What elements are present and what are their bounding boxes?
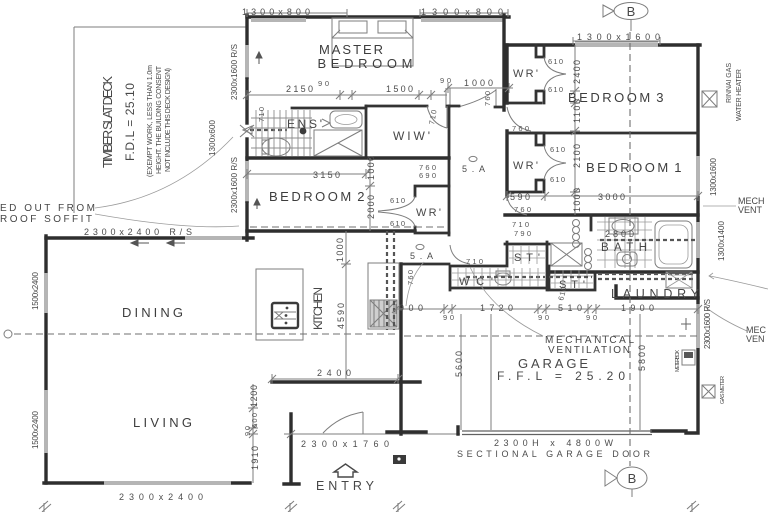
water heater symbol (702, 91, 717, 107)
svg-text:600: 600 (250, 413, 259, 428)
dim line: garage top row 900/1720/510/1900 (392, 304, 702, 314)
hall dashes near ST2 (549, 276, 592, 278)
wardrobe WR bedroom2: top/bottom/jambs (415, 186, 449, 233)
svg-text:1910: 1910 (250, 446, 260, 470)
dim line: 1300x1600 top (573, 37, 660, 45)
datum circle left end (4, 330, 12, 338)
wall: entry east pier feet (387, 264, 426, 434)
window 2300x1600 in east wall (garage) (696, 304, 700, 348)
svg-text:1000: 1000 (335, 238, 345, 262)
B marker top (603, 3, 648, 20)
wall: NE top exterior (505, 43, 700, 46)
laundry washer (666, 272, 692, 288)
door: ENS cavity slider dashed (250, 129, 287, 131)
ENS toilet (262, 138, 290, 156)
entry meter plate (393, 455, 406, 464)
svg-text:610: 610 (548, 57, 563, 66)
kitchen bench (368, 263, 399, 329)
wall: ST upper room (505, 242, 549, 266)
shower box with cross (551, 243, 582, 266)
svg-text:GAS METER: GAS METER (720, 376, 726, 404)
window 2300x1600 lower in west wall (245, 161, 249, 203)
up arrow west wall master (256, 52, 262, 64)
svg-text:MASTER: MASTER (319, 42, 383, 57)
wall: west wall bottom (241, 203, 253, 240)
wall: hall wall right of bedroom2 (448, 158, 451, 235)
wall: east exterior (686, 45, 698, 433)
svg-text:900: 900 (399, 303, 423, 313)
svg-text:1500x2400: 1500x2400 (31, 271, 40, 310)
spring coil symbol hall 2 (585, 249, 592, 270)
benchmark symbols bottom (39, 501, 699, 512)
door: WC entry arc (450, 245, 470, 264)
svg-text:KITCHEN: KITCHEN (311, 287, 325, 330)
dim line: vertical x646 garage 5600 (639, 314, 641, 430)
spring coil symbol hall 1 (573, 220, 580, 248)
entry threshold line (291, 433, 460, 435)
svg-text:1300x600: 1300x600 (208, 119, 217, 156)
svg-text:TIMBER SLAT DECK: TIMBER SLAT DECK (101, 75, 115, 168)
svg-text:2000: 2000 (366, 195, 376, 219)
svg-text:B: B (628, 471, 637, 486)
wall: WC room (450, 242, 549, 290)
WR top closet: bottom + jambs (507, 45, 544, 103)
smoke alarm symbol hall lower (410, 244, 433, 261)
WC toilet (495, 271, 511, 285)
ENS floor waste (300, 128, 307, 135)
garage sectional door line (462, 431, 652, 435)
svg-text:710: 710 (257, 107, 266, 122)
wall: laundry bottom (616, 286, 698, 298)
svg-text:1000: 1000 (572, 188, 582, 212)
svg-text:590: 590 (510, 192, 530, 202)
svg-text:2300x1600 R/S: 2300x1600 R/S (230, 44, 239, 100)
window 2300x1600 upper in west wall (245, 45, 249, 79)
WC hall dashes (466, 276, 545, 278)
section line B vertical dashed (629, 32, 631, 466)
left arrows under dining window (131, 240, 149, 246)
ENS shower (314, 130, 362, 156)
wall: hall/WR east wall x507 (505, 45, 508, 196)
wall: bath bottom / laundry top (549, 270, 698, 273)
svg-text:METER BOX: METER BOX (675, 350, 681, 372)
bed master (332, 18, 413, 66)
wall: west wall below deck door (245, 139, 248, 161)
dim line: 3150 ens row (243, 169, 370, 179)
svg-text:5.A: 5.A (462, 164, 485, 174)
svg-text:VEN: VEN (746, 334, 765, 344)
gas meter symbol (702, 385, 715, 398)
leader curve to wall soffit (95, 214, 239, 227)
svg-text:760: 760 (512, 124, 529, 133)
svg-text:510: 510 (558, 303, 582, 313)
dim line: vertical x575 bedroom rows (570, 45, 580, 215)
door: WIW arc (427, 106, 447, 128)
bath tub (655, 221, 692, 268)
kitchen island (256, 269, 303, 340)
svg-text:1300x1600: 1300x1600 (709, 157, 718, 196)
roof dashed pair near kitchen (387, 231, 394, 330)
svg-text:B: B (627, 4, 636, 19)
dim line: vertical x370 wiw/bedroom2 (365, 158, 375, 231)
svg-text:790: 790 (514, 229, 531, 238)
svg-text:690: 690 (419, 171, 436, 180)
door: WR2 bifold arcs (544, 145, 566, 180)
up arrow west wall deck access (254, 199, 260, 209)
dim line: under master bed row (243, 83, 513, 100)
wall: bedroom2 bottom (247, 229, 415, 232)
svg-text:WATER HEATER: WATER HEATER (736, 69, 743, 121)
ST2 tiling grid (551, 270, 593, 288)
hall vertical wall above WC (403, 263, 449, 266)
dim line: bedroom1 590/3000 row (503, 191, 702, 201)
svg-text:610: 610 (390, 219, 405, 228)
wall: master right / hall wall (502, 15, 505, 110)
dim line: vertical x253 entry 1200/600/90/1910 (248, 384, 258, 483)
window 1300x1600 in east wall (696, 156, 700, 196)
dim line: kitchen 2400 (268, 374, 402, 384)
deck outline (74, 27, 247, 213)
svg-text:760: 760 (514, 205, 531, 214)
svg-text:HEIGHT. THE BUILDING CONSENT: HEIGHT. THE BUILDING CONSENT (156, 65, 163, 174)
WC tiling grid (452, 268, 545, 287)
laundry window arrow (681, 318, 691, 330)
kitchen island cooktop (272, 303, 298, 328)
leader: right mech vent lower (704, 273, 768, 331)
window 2300x2400 in living bottom wall (104, 481, 231, 485)
svg-text:760: 760 (406, 270, 415, 285)
svg-text:2300x1760: 2300x1760 (301, 439, 389, 449)
svg-text:(EXEMPT WORK, LESS THAN 1.0m: (EXEMPT WORK, LESS THAN 1.0m (147, 65, 154, 177)
roofline dashes above bedroom2 bottom wall (250, 226, 445, 228)
window 1300x1600 in NE top wall (575, 43, 658, 47)
svg-text:1300x1400: 1300x1400 (717, 220, 726, 261)
svg-text:VENT: VENT (738, 205, 763, 215)
ENS slider arrow (243, 126, 252, 134)
svg-text:1100: 1100 (572, 99, 582, 123)
leader: SA to wall (406, 262, 424, 306)
dim line: vertical x458 garage 5600 (460, 314, 462, 430)
svg-text:2400: 2400 (572, 60, 582, 84)
svg-text:1000: 1000 (366, 156, 376, 180)
svg-text:610: 610 (548, 85, 563, 94)
wall: dining top (46, 236, 185, 239)
wall: west bedroom wall upper (245, 15, 248, 45)
datum dash line horizontal (14, 334, 698, 336)
dim line: top 1300x800 windows (247, 9, 508, 17)
window 1500x2400 lower west (44, 390, 48, 453)
wall: ENS top (292, 107, 366, 110)
door: bedroom1 entry arc (507, 196, 527, 215)
laundry dashes (598, 274, 694, 279)
wall: entry west pier (284, 414, 299, 484)
svg-text:710: 710 (512, 220, 529, 229)
dim line: vertical x346 kitchen 1000/4590 (341, 231, 351, 379)
meter box (682, 350, 695, 365)
door: bedroom3 entry arc (507, 107, 531, 131)
window 1300x800 right in top wall (421, 18, 503, 22)
svg-text:5600: 5600 (454, 351, 464, 377)
kitchen oven hatch (370, 300, 397, 327)
wall: ENS/WIW divider (365, 106, 368, 158)
wall: west exterior (living/dining) (44, 236, 47, 483)
wall: WIW top (366, 106, 504, 107)
svg-text:BEDROOM1: BEDROOM1 (586, 160, 681, 175)
wall: WIW right (448, 106, 451, 158)
leader: right mech vent upper (703, 205, 736, 207)
wall: bedroom1 bottom (505, 213, 698, 216)
window 1300x1400 in east wall (696, 222, 700, 258)
leader: mechanical ventilation (470, 267, 543, 336)
window 1500x2400 upper west (44, 273, 48, 313)
ENS tiling grid (251, 110, 312, 156)
svg-text:F.D.L = 25.10: F.D.L = 25.10 (123, 83, 137, 161)
door: WR b2 bifold arcs (378, 196, 415, 227)
wall: bedroom2 top (247, 156, 449, 159)
ENS arrow glyph (322, 119, 330, 127)
bath vanity (609, 218, 638, 234)
wall: living bottom (44, 481, 250, 484)
svg-text:760: 760 (483, 91, 492, 106)
svg-text:VENTILATION: VENTILATION (548, 345, 630, 356)
window 2300x2400 slider in dining top wall (185, 236, 242, 240)
leader curve to deck door (95, 137, 233, 208)
window 1300x800 left in top wall (251, 18, 306, 22)
svg-text:2300x1600 R/S: 2300x1600 R/S (703, 299, 712, 349)
wall: ST2 (549, 266, 595, 290)
svg-text:710: 710 (466, 257, 483, 266)
svg-text:1200: 1200 (249, 385, 259, 407)
svg-text:RINNAI GAS: RINNAI GAS (726, 63, 733, 103)
bath datum dashes (600, 239, 695, 241)
bath tiling (597, 217, 652, 268)
wall: top exterior (master bedroom) (247, 15, 509, 18)
ENS vanity (330, 111, 362, 128)
wall: bedroom3/bedroom1 divider (507, 132, 698, 135)
svg-text:ENS': ENS' (287, 117, 322, 131)
svg-text:610: 610 (550, 175, 565, 184)
door: WR top bifold arcs (544, 57, 566, 91)
svg-text:610: 610 (390, 196, 405, 205)
svg-text:NOT INCLUDE THIS DECK DESIGN): NOT INCLUDE THIS DECK DESIGN) (165, 68, 172, 172)
svg-text:BEDROOM2: BEDROOM2 (269, 189, 364, 204)
svg-text:5.A: 5.A (410, 251, 433, 261)
svg-text:F.F.L = 25.20: F.F.L = 25.20 (497, 369, 625, 383)
svg-text:610: 610 (550, 145, 565, 154)
svg-text:BEDROOM3: BEDROOM3 (568, 90, 663, 105)
wall: kitchen south (272, 380, 420, 383)
ST tiling grid (509, 246, 545, 264)
svg-text:5800: 5800 (637, 345, 647, 371)
svg-text:ED OUT FROM: ED OUT FROM (0, 203, 95, 214)
dim line: vertical x491 garage (490, 314, 492, 430)
svg-text:4590: 4590 (336, 303, 346, 329)
B marker bottom (605, 467, 647, 489)
svg-text:2300x1600 R/S: 2300x1600 R/S (230, 157, 239, 213)
wall: garage door jambs and bottom (458, 427, 686, 434)
smoke alarm symbol hall upper (462, 156, 485, 174)
WR2 closet: top/bottom/jambs (507, 133, 544, 192)
svg-text:2300x2400: 2300x2400 (119, 492, 203, 502)
svg-text:1300x1600: 1300x1600 (577, 32, 660, 42)
wall: west wall mid (245, 79, 248, 123)
svg-text:1500x2400: 1500x2400 (31, 410, 40, 449)
wall: bath left (590, 215, 593, 230)
door: entry leaf and swing (323, 412, 363, 434)
deck door marks (240, 125, 254, 137)
bath toilet (617, 252, 637, 266)
door: master bedroom entry arc (446, 88, 496, 108)
entry arrow (334, 464, 357, 477)
svg-text:2100: 2100 (572, 144, 582, 168)
svg-text:90: 90 (243, 426, 252, 436)
